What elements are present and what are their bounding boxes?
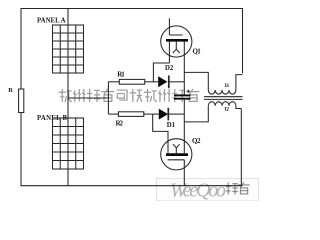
svg-text:L2: L2	[224, 107, 229, 113]
svg-text:R1: R1	[117, 71, 125, 79]
svg-text:Q1: Q1	[193, 48, 202, 56]
svg-text:PANEL B: PANEL B	[37, 115, 67, 122]
svg-text:R: R	[8, 87, 13, 94]
svg-text:R2: R2	[116, 120, 124, 128]
svg-text:Q2: Q2	[192, 137, 201, 145]
svg-text:D2: D2	[165, 65, 174, 72]
svg-text:D1: D1	[167, 122, 176, 129]
svg-text:PANEL A: PANEL A	[37, 18, 66, 25]
svg-text:WeeQoo: WeeQoo	[170, 180, 226, 202]
svg-text:L1: L1	[225, 83, 230, 89]
